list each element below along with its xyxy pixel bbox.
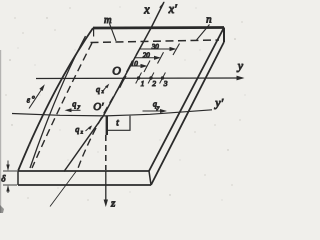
section line m-n (dashed)	[91, 40, 220, 43]
leader line pointing to strip at bottom edge	[50, 172, 76, 207]
dashed inset line left (parallel to left edge)	[32, 43, 92, 168]
thick ink blob on x axis below O	[119, 77, 124, 88]
tick at 30 end	[173, 44, 180, 56]
point 1 dot	[137, 76, 140, 79]
svg-text:y: y	[237, 58, 244, 72]
point 2 dot	[149, 76, 152, 79]
svg-text:q: q	[75, 125, 79, 134]
svg-text:O′: O′	[93, 101, 104, 113]
front face right vertical	[149, 171, 151, 185]
point 3 dot	[161, 76, 164, 79]
y axis arrowhead	[237, 76, 245, 81]
dimension line 30	[139, 48, 175, 50]
n tick line	[197, 25, 210, 41]
second solid inner line near left edge	[30, 36, 86, 168]
tick through point 2	[148, 73, 154, 84]
svg-text:y: y	[156, 105, 160, 111]
svg-text:ο: ο	[32, 94, 35, 100]
tick at 20 end	[158, 52, 164, 63]
thickness dimension delta: extension lines	[3, 170, 17, 172]
tick at 10 end	[144, 61, 150, 73]
svg-text:10: 10	[131, 60, 139, 68]
delta dim lower arrow (pointing up)	[7, 187, 9, 194]
x axis line (through O and O')	[64, 2, 164, 172]
tick through point 3	[160, 73, 166, 84]
svg-text:1: 1	[141, 79, 145, 88]
paper speckles	[5, 7, 245, 201]
svg-text:n: n	[206, 14, 212, 26]
dashed strip boundary right of x axis	[77, 76, 126, 171]
plate right edge of top face	[149, 28, 224, 172]
plate bottom edge of top face	[18, 170, 149, 172]
tick at 30 start	[136, 44, 143, 56]
y' axis	[12, 110, 212, 116]
z axis solid upper part below O'	[106, 116, 108, 135]
svg-text:3: 3	[163, 79, 168, 88]
svg-text:z: z	[110, 197, 116, 209]
z axis lower part with arrow	[105, 171, 107, 205]
svg-text:q: q	[72, 100, 76, 109]
svg-text:m: m	[104, 15, 112, 26]
z axis dashed part	[105, 135, 107, 170]
back-right corner vertical edge	[223, 28, 225, 43]
plate top edge (m-n side)	[93, 26, 224, 29]
scan artifact: bottom-left corner blob	[0, 205, 4, 213]
x axis arrowhead	[159, 1, 164, 8]
scan artifact: dark left border	[0, 50, 1, 213]
svg-text:y: y	[77, 104, 81, 110]
q_y left arrow	[67, 109, 81, 111]
svg-text:30: 30	[151, 43, 160, 51]
front face left vertical	[17, 171, 19, 185]
svg-text:x: x	[143, 2, 150, 16]
m tick line	[110, 24, 117, 42]
svg-text:y′: y′	[214, 96, 223, 110]
q_y right arrow	[143, 110, 165, 112]
back-left corner vertical stub	[93, 29, 95, 37]
svg-text:20: 20	[143, 52, 151, 60]
plate left edge	[18, 28, 93, 171]
svg-text:2: 2	[152, 79, 156, 88]
right face bottom edge	[151, 42, 224, 185]
front face bottom edge	[18, 184, 151, 186]
displacement arrow epsilon at left	[29, 87, 44, 109]
z axis arrowhead	[104, 200, 108, 208]
svg-text:x′: x′	[168, 2, 178, 16]
tick at 10 start	[127, 61, 133, 73]
svg-text:O: O	[112, 63, 121, 77]
dimension line 20	[134, 57, 159, 59]
small arrow for q_x lower	[86, 126, 91, 131]
small arrow for q_x upper	[104, 85, 109, 90]
svg-text:q: q	[96, 85, 100, 94]
delta dim upper arrow (pointing down)	[7, 161, 9, 170]
paper background	[0, 0, 249, 213]
strip element rectangle under O' (width t)	[107, 116, 130, 131]
dimension line 10	[130, 65, 146, 67]
y axis	[36, 77, 243, 80]
tick through point 1	[136, 73, 142, 84]
